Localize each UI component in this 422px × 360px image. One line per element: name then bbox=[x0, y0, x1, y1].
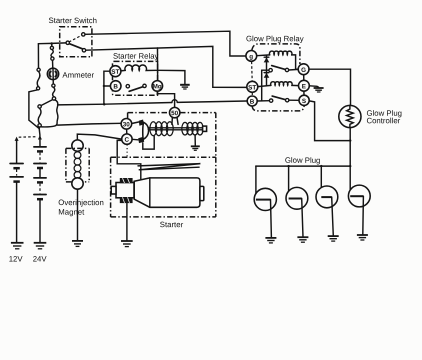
starter relay K1 bbox=[110, 61, 163, 95]
svg-text:B: B bbox=[250, 99, 255, 106]
svg-text:C: C bbox=[124, 137, 129, 144]
wire: switch start contact to glow relay ST bbox=[86, 46, 247, 87]
wire: left drop with connectors (flexible lead) bbox=[29, 44, 40, 129]
starter solenoid plunger and contacts bbox=[132, 120, 155, 150]
wire: E to ground bbox=[309, 86, 318, 88]
wire: B bus inside relay bbox=[261, 70, 263, 101]
wire: controller down to bus bbox=[349, 128, 351, 167]
wire: branch to starter relay contact bbox=[157, 48, 159, 61]
glow plug relay contact 1 bbox=[262, 66, 299, 72]
terminal S bbox=[299, 95, 309, 105]
node junction battery feed / relay drop bbox=[103, 103, 106, 106]
glow plug relay contact 2 bbox=[257, 96, 299, 102]
battery 24V BT2 bbox=[34, 147, 46, 242]
wire: battery feed bottom (to starter 30) bbox=[58, 123, 122, 125]
svg-text:Ammeter: Ammeter bbox=[62, 71, 94, 80]
starter switch SW1 bbox=[60, 27, 92, 57]
wire: relay coil to ground bbox=[158, 70, 185, 84]
ground glow plug 4 bbox=[357, 235, 368, 240]
ground glow plug 1 bbox=[265, 238, 276, 243]
wire: G to controller bbox=[309, 69, 351, 105]
svg-text:30: 30 bbox=[123, 121, 131, 128]
svg-text:S: S bbox=[302, 98, 306, 105]
diode D1 bbox=[264, 55, 270, 70]
ammeter A1 bbox=[47, 44, 58, 101]
svg-text:Controller: Controller bbox=[366, 116, 400, 125]
wire: switch glow contact to glow relay g bbox=[85, 31, 246, 56]
starter solenoid boundary (dash-dot box) bbox=[127, 113, 216, 158]
svg-text:50: 50 bbox=[171, 110, 179, 117]
node junction ammeter tap bbox=[50, 42, 53, 45]
ground glow plug 2 bbox=[297, 237, 308, 242]
battery 12V BT1 bbox=[10, 164, 23, 243]
terminal B (glow relay) bbox=[247, 96, 257, 106]
starter solenoid pull-in coil bbox=[149, 122, 203, 136]
overinjection magnet L1 bbox=[66, 140, 89, 241]
ground starter relay coil bbox=[180, 85, 190, 89]
wire: C terminal to starter motor bbox=[117, 140, 141, 179]
terminal ST (glow relay) bbox=[247, 81, 258, 92]
ground E terminal bbox=[314, 88, 324, 92]
glow plug relay coil 2 bbox=[258, 82, 299, 87]
terminal g bbox=[246, 51, 257, 62]
svg-text:g: g bbox=[249, 54, 253, 61]
glow plug 3 bbox=[316, 166, 338, 236]
wire: relay Mg to starter 50 bbox=[157, 91, 174, 107]
svg-text:Glow Plug: Glow Plug bbox=[285, 156, 321, 165]
wire: battery feed top (to relays) with crossover hop bbox=[58, 103, 172, 105]
node junction bus 3 bbox=[320, 165, 322, 167]
wire: glow plug bus bbox=[256, 165, 350, 167]
ground overinjection magnet bbox=[72, 241, 83, 247]
wire: 24V battery stem with tap arrow bbox=[38, 129, 42, 147]
svg-text:ST: ST bbox=[111, 69, 119, 76]
wire: switch left contact to left bus bbox=[38, 42, 66, 45]
glow plug controller R1 bbox=[339, 105, 361, 127]
ground solenoid coil bbox=[191, 146, 200, 150]
starter drive lever bbox=[138, 164, 200, 170]
diode D2 bbox=[264, 70, 270, 85]
starter motor boundary (dash-dot box) bbox=[111, 157, 216, 217]
node junction bus 4 bbox=[349, 165, 351, 167]
glow plug 1 bbox=[254, 166, 276, 238]
glow plug relay boundary (dash-dot box) bbox=[252, 44, 305, 111]
node junction S/controller bbox=[349, 139, 351, 141]
svg-text:ST: ST bbox=[248, 84, 256, 91]
svg-text:Starter: Starter bbox=[160, 220, 184, 229]
svg-text:Magnet: Magnet bbox=[58, 208, 85, 217]
svg-text:Mg: Mg bbox=[153, 83, 162, 90]
svg-text:B: B bbox=[113, 84, 118, 91]
wire: starter motor to ground bbox=[126, 203, 128, 241]
svg-text:Starter Switch: Starter Switch bbox=[48, 16, 97, 25]
wire: relay ST/B drop to battery feed bbox=[103, 71, 111, 104]
wire: hold-in coil to ground bbox=[194, 135, 196, 146]
wire: 12V battery stem with tap arrow bbox=[15, 137, 19, 163]
starter solenoid hold-in coil bbox=[182, 122, 207, 135]
node junction bus 2 bbox=[287, 165, 289, 167]
ground 24V bbox=[34, 243, 47, 249]
terminal 50 bbox=[170, 107, 180, 117]
svg-text:Starter Relay: Starter Relay bbox=[113, 52, 159, 61]
terminal 30 bbox=[121, 119, 132, 130]
terminal C bbox=[122, 129, 132, 144]
svg-text:12V: 12V bbox=[9, 255, 24, 264]
wire: S to glow plug bus bbox=[309, 101, 350, 141]
svg-text:24V: 24V bbox=[33, 255, 48, 264]
svg-text:G: G bbox=[301, 67, 306, 74]
ground 12V bbox=[11, 243, 24, 249]
connector block / fusible link FL bbox=[38, 100, 58, 129]
ground glow plug 3 bbox=[328, 236, 339, 241]
terminal G bbox=[298, 64, 309, 75]
terminal E bbox=[299, 80, 310, 91]
wire: dashed 12V tap jumper bbox=[19, 136, 38, 139]
svg-text:Glow Plug Relay: Glow Plug Relay bbox=[246, 34, 304, 43]
svg-text:Overinjection: Overinjection bbox=[58, 198, 104, 207]
glow plug 2 bbox=[286, 166, 308, 237]
ground starter motor bbox=[121, 241, 133, 247]
wire: magnet feed from C terminal bbox=[77, 134, 121, 140]
wire: 50 fork to solenoid coils bbox=[172, 117, 178, 124]
starter motor M1 bbox=[111, 178, 204, 207]
svg-text:E: E bbox=[302, 83, 306, 90]
glow plug relay coil 1 bbox=[257, 51, 299, 69]
glow plug 4 bbox=[348, 166, 370, 235]
